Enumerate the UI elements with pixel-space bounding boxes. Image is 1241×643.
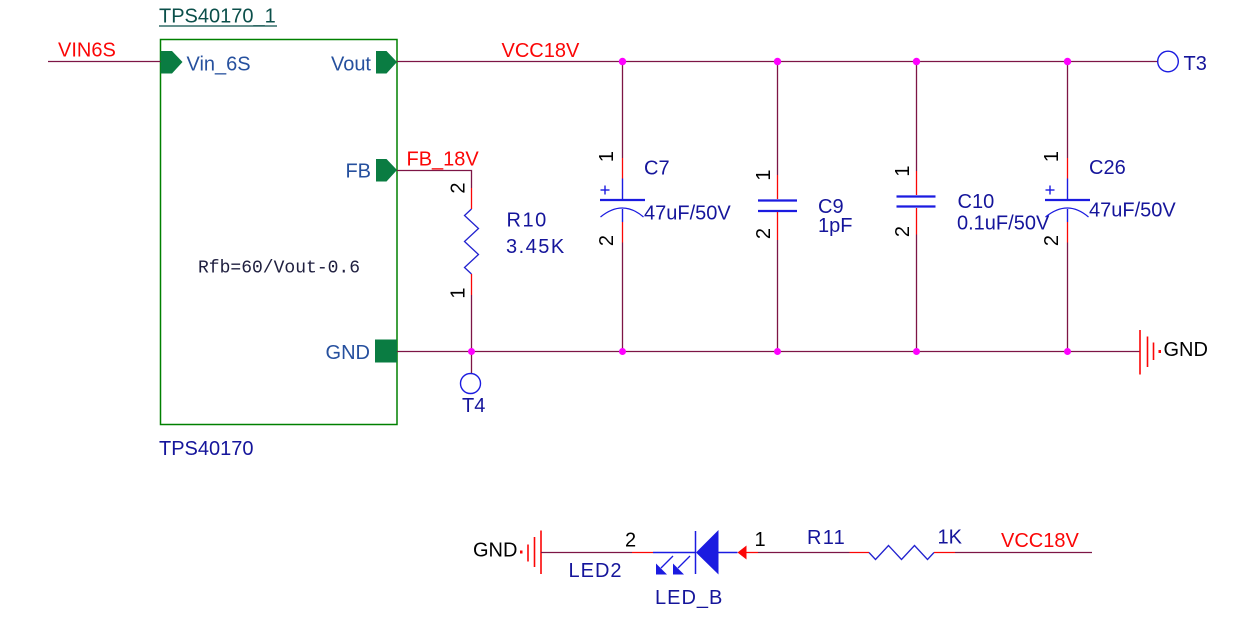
svg-text:FB: FB <box>345 161 371 183</box>
pin number 2 of R10 <box>448 182 470 193</box>
label C7 <box>644 158 670 180</box>
pin-1 arrow marker of LED <box>738 546 759 560</box>
capacitor C9 <box>758 62 797 352</box>
pin GND <box>326 340 397 365</box>
svg-text:GND: GND <box>1164 339 1208 361</box>
svg-text:GND: GND <box>326 342 370 364</box>
junction dots bottom rail <box>468 348 1071 355</box>
svg-text:1: 1 <box>1041 151 1063 162</box>
svg-text:2: 2 <box>753 228 775 239</box>
svg-text:47uF/50V: 47uF/50V <box>1089 200 1176 222</box>
wire stub to T4 <box>471 352 473 374</box>
terminal T4 <box>461 374 486 418</box>
capacitor C7 <box>600 62 645 352</box>
wire R10 to GND rail <box>471 295 473 352</box>
svg-text:0.1uF/50V: 0.1uF/50V <box>957 213 1050 235</box>
pin FB <box>345 159 397 183</box>
capacitor C10 <box>897 62 936 352</box>
svg-text:VIN6S: VIN6S <box>58 40 116 62</box>
wire R11 to VCC18V <box>955 552 1092 554</box>
svg-text:T3: T3 <box>1184 53 1207 75</box>
plus mark of C7 <box>601 186 610 195</box>
label R10 <box>507 210 548 232</box>
pin number 2 of C9 <box>753 228 775 239</box>
resistor R10 <box>465 188 479 295</box>
wire LED to R11 <box>758 552 850 554</box>
junction dots top rail <box>619 58 1071 65</box>
value 47uF/50V of C7 <box>644 203 731 225</box>
value 3.45K <box>506 236 566 258</box>
pin Vout <box>331 51 397 76</box>
pin number 1 of C26 <box>1041 151 1063 162</box>
pin number 2 of C10 <box>892 226 914 237</box>
ground symbol right GND <box>1140 330 1208 375</box>
svg-text:2: 2 <box>448 182 470 193</box>
label C10 <box>958 191 995 213</box>
svg-text:TPS40170: TPS40170 <box>159 438 254 460</box>
value 0.1uF/50V <box>957 213 1050 235</box>
svg-text:TPS40170_1: TPS40170_1 <box>159 6 276 28</box>
block title TPS40170_1 <box>159 6 277 28</box>
LED light arrow 2 <box>673 556 690 575</box>
pin number 1 of C10 <box>892 165 914 176</box>
pin number 2 of LED2 <box>625 530 636 552</box>
resistor R11 <box>850 546 956 560</box>
svg-text:C7: C7 <box>644 158 670 180</box>
svg-text:1pF: 1pF <box>818 215 852 237</box>
net label VIN6S <box>58 40 116 62</box>
pin number 1 of C7 <box>596 151 618 162</box>
svg-text:VCC18V: VCC18V <box>1001 530 1079 552</box>
svg-text:1K: 1K <box>938 527 963 549</box>
wire GND bottom rail <box>397 351 1140 353</box>
wire VIN6S input <box>48 61 161 63</box>
LED LED2 anode lead <box>632 552 696 554</box>
svg-text:C10: C10 <box>958 191 995 213</box>
net label FB_18V <box>407 149 480 171</box>
plus mark of C26 <box>1046 186 1055 195</box>
svg-text:T4: T4 <box>462 395 485 417</box>
wire VCC18V top rail <box>397 61 1158 63</box>
pin number 1 of R10 <box>448 287 470 298</box>
LED light arrow 1 <box>656 556 673 575</box>
label LED2 <box>569 560 623 582</box>
svg-text:R11: R11 <box>807 527 846 549</box>
ground symbol left GND (LED circuit) <box>473 531 541 575</box>
label LED_B <box>655 587 723 609</box>
net label VCC18V <box>502 40 580 62</box>
svg-text:2: 2 <box>892 226 914 237</box>
hierarchical block U1 TPS40170_1 <box>161 40 398 425</box>
svg-text:47uF/50V: 47uF/50V <box>644 203 731 225</box>
svg-text:1: 1 <box>892 165 914 176</box>
capacitor C26 <box>1045 62 1090 352</box>
pin number 1 of C9 <box>753 169 775 180</box>
svg-text:3.45K: 3.45K <box>506 236 566 258</box>
svg-text:2: 2 <box>1041 235 1063 246</box>
wire gnd to LED2 <box>541 552 632 554</box>
pin number 2 of C7 <box>596 235 618 246</box>
svg-text:1: 1 <box>753 169 775 180</box>
svg-text:2: 2 <box>596 235 618 246</box>
svg-text:FB_18V: FB_18V <box>407 149 480 171</box>
svg-text:Vout: Vout <box>331 54 371 76</box>
svg-text:LED2: LED2 <box>569 560 623 582</box>
net label VCC18V bottom <box>1001 530 1079 552</box>
svg-text:1: 1 <box>596 151 618 162</box>
svg-text:1: 1 <box>755 529 766 551</box>
svg-text:2: 2 <box>625 530 636 552</box>
label R11 <box>807 527 846 549</box>
label C26 <box>1089 157 1126 179</box>
pin Vin_6S <box>161 51 251 76</box>
svg-text:R10: R10 <box>507 210 548 232</box>
block name TPS40170 <box>159 438 254 460</box>
LED LED2 symbol <box>696 530 738 575</box>
pin number 2 of C26 <box>1041 235 1063 246</box>
label C9 <box>818 196 844 218</box>
svg-text:Rfb=60/Vout-0.6: Rfb=60/Vout-0.6 <box>198 259 360 279</box>
svg-text:LED_B: LED_B <box>655 587 723 609</box>
wire FB to R10 <box>397 171 472 189</box>
terminal T3 <box>1158 51 1207 75</box>
pin number 1 of LED <box>755 529 766 551</box>
value 47uF/50V of C26 <box>1089 200 1176 222</box>
svg-text:Vin_6S: Vin_6S <box>187 54 251 76</box>
value 1pF <box>818 215 852 237</box>
svg-text:GND: GND <box>473 540 517 562</box>
svg-text:1: 1 <box>448 287 470 298</box>
svg-text:VCC18V: VCC18V <box>502 40 580 62</box>
value text Rfb=60/Vout-0.6 <box>198 259 360 279</box>
svg-text:C26: C26 <box>1089 157 1126 179</box>
value 1K <box>938 527 963 549</box>
